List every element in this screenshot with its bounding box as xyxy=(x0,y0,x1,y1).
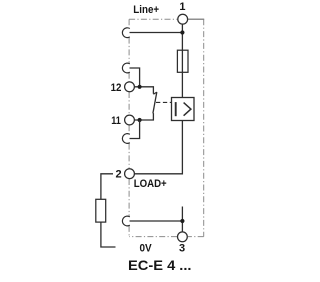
wire: Line+ bridge to trunk xyxy=(130,32,183,34)
node: junction wire11/arc xyxy=(138,118,142,122)
wire: arc up to node on wire 11 xyxy=(130,120,140,139)
wire: terminal 11 to switch bottom xyxy=(135,113,154,120)
switch S1 contact tick xyxy=(153,92,156,94)
svg-text:Line+: Line+ xyxy=(133,4,159,16)
enclosure border top-right solid piece xyxy=(188,18,205,20)
electronic switch U1 (I> box) xyxy=(172,98,195,121)
svg-text:1: 1 xyxy=(179,1,185,13)
bridge socket arc (net 11) xyxy=(122,134,129,144)
fuse F1 xyxy=(177,50,188,72)
svg-text:12: 12 xyxy=(111,82,122,94)
terminal circle 11 xyxy=(125,115,135,125)
load resistor R xyxy=(96,199,106,222)
bridge socket arc (net 12) xyxy=(122,63,129,73)
wire: terminal 12 to switch xyxy=(135,87,154,94)
wire: through fuse to switch box xyxy=(181,50,183,97)
terminal circle 12 xyxy=(125,82,135,92)
wire: 0V stub up and down to terminal 3 xyxy=(181,207,183,232)
wire: 0V bridge to trunk xyxy=(130,220,183,222)
enclosure border bottom (dash-dot) xyxy=(188,236,204,238)
mechanical link (dashed) to box xyxy=(156,101,172,103)
enclosure border right (dash-dot) xyxy=(203,19,205,236)
svg-text:0V: 0V xyxy=(140,242,153,254)
svg-text:LOAD+: LOAD+ xyxy=(134,178,167,190)
switch S1 blade xyxy=(153,92,157,113)
symbol > inside box xyxy=(184,103,191,116)
node: junction wire12/arc xyxy=(138,85,142,89)
terminal circle 1 xyxy=(178,14,188,24)
wire: terminal 2 left to load resistor xyxy=(101,174,125,200)
bridge socket arc (0V) xyxy=(122,216,129,226)
terminal circle 2 xyxy=(125,169,135,179)
wire: box output down and left to terminal 2 xyxy=(134,121,182,174)
wire: trunk from terminal 1 down to fuse xyxy=(181,24,183,50)
terminal circle 3 xyxy=(178,232,188,242)
node: junction 0V xyxy=(180,219,184,223)
node: junction trunk/Line+ bridge xyxy=(180,30,184,34)
symbol I inside box xyxy=(175,102,177,116)
label knockout for pin 2 xyxy=(113,168,124,179)
wire: arc to node on wire 12 xyxy=(130,68,140,87)
svg-text:11: 11 xyxy=(111,115,121,127)
enclosure border left (dash-dot segments between terminals) xyxy=(128,19,130,236)
wire: resistor bottom to 0V side xyxy=(101,222,116,247)
svg-text:2: 2 xyxy=(116,169,122,181)
bridge socket arc (Line+) xyxy=(122,28,129,38)
enclosure border top (dash-dot) xyxy=(129,18,177,20)
svg-text:EC-E 4 ...: EC-E 4 ... xyxy=(128,257,192,273)
svg-text:3: 3 xyxy=(179,243,185,255)
